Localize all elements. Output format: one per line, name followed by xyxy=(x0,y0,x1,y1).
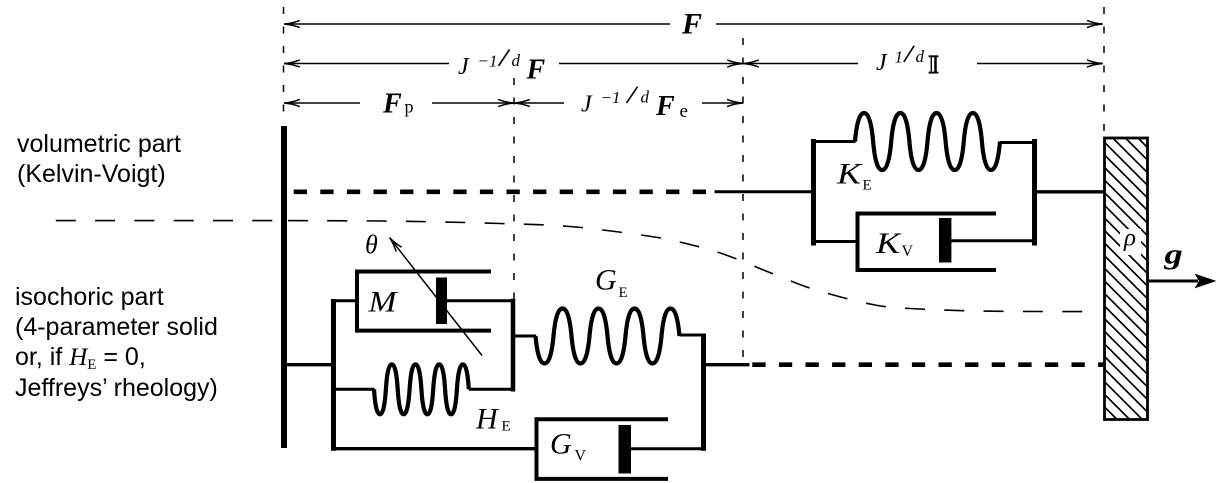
svg-text:F: F xyxy=(655,91,675,122)
svg-text:M: M xyxy=(367,285,398,318)
svg-text:G: G xyxy=(550,428,572,461)
wire: spring H_E lead-out xyxy=(469,388,513,391)
svg-text:−1: −1 xyxy=(601,88,621,107)
svg-text:V: V xyxy=(902,243,914,260)
arrowhead J^(-1/d)F right xyxy=(727,60,743,67)
arrowhead J^(-1/d)F left xyxy=(284,60,300,67)
dimension line J^(-1/d)F right segment xyxy=(559,63,742,65)
arrowhead J^(1/d)I right xyxy=(1087,60,1103,67)
svg-text:p: p xyxy=(405,97,414,117)
svg-text:d: d xyxy=(641,88,650,107)
node: Kelvin-Voigt left parallel bar xyxy=(811,139,816,246)
glyph blackboard-bold identity tensor I xyxy=(929,56,939,72)
svg-text:g: g xyxy=(1163,239,1182,270)
svg-text:E: E xyxy=(863,177,872,193)
dashpot G_V cup xyxy=(537,419,669,479)
dimension line J^(-1/d)F left segment xyxy=(285,63,449,65)
svg-text:−1: −1 xyxy=(478,51,498,70)
arrowhead F_p right (meets split) xyxy=(498,99,514,106)
dimension line J^(1/d)I left segment xyxy=(744,63,858,65)
ground: fixed frame bar xyxy=(281,126,287,448)
svg-text:J: J xyxy=(876,50,888,76)
dashpot K_V piston rod xyxy=(951,239,1035,242)
svg-text:F: F xyxy=(382,89,402,120)
svg-text:V: V xyxy=(575,447,587,464)
node: isochoric right parallel bar xyxy=(701,334,706,451)
svg-text:G: G xyxy=(595,263,617,296)
dimension line F row1 right segment xyxy=(716,23,1102,25)
node: dashed reference line at x=743 (isochoric / volumetric split) xyxy=(742,38,744,363)
wire: isochoric solid connector out xyxy=(703,363,750,366)
wire: dashpot M lead-in xyxy=(333,299,358,302)
dimension line J^(-1/d)F_e left segment xyxy=(515,102,564,104)
svg-text:d: d xyxy=(512,51,521,70)
wire: spring G_E lead-out xyxy=(680,334,705,337)
arrowhead J^(1/d)I left xyxy=(743,60,759,67)
wire: volumetric branch thick dashed segment xyxy=(294,190,706,195)
dashpot M piston rod xyxy=(446,299,513,302)
svg-text:θ: θ xyxy=(365,230,378,259)
svg-text:d: d xyxy=(916,47,925,66)
svg-text:F: F xyxy=(681,7,702,40)
node: dashed reference line at left boundary x=283.5 xyxy=(283,7,285,122)
wire: isochoric branch entry xyxy=(284,363,334,366)
wire: separator dashed sigmoid curve xyxy=(288,221,1093,312)
spring K_E xyxy=(855,113,1000,170)
dimension line F row1 left segment xyxy=(285,23,670,25)
wire: dashpot K_V lead-in xyxy=(813,240,858,243)
dashpot G_V piston plate xyxy=(619,425,632,474)
dimension line F_p right segment xyxy=(432,102,513,104)
spring G_E xyxy=(536,309,680,364)
dashpot K_V cup xyxy=(858,214,997,271)
arrowhead F left xyxy=(284,20,300,27)
node: isochoric left parallel bar xyxy=(331,299,336,451)
svg-text:J: J xyxy=(581,91,593,117)
dashpot M cup xyxy=(357,272,491,331)
wire: separator dashed line left of frame xyxy=(56,220,281,222)
arrow g gravity xyxy=(1148,280,1198,283)
wire: spring K_E lead-in xyxy=(813,140,856,143)
svg-text:E: E xyxy=(502,419,511,435)
wire: volumetric branch to wall xyxy=(1035,190,1104,193)
svg-text:1: 1 xyxy=(895,47,904,66)
wire: volumetric branch solid connector xyxy=(715,190,814,193)
node: dashed reference line at x=514 (F_p / F_e split) xyxy=(513,78,515,363)
wire: spring K_E lead-out xyxy=(1000,141,1035,144)
wire: series stub to G_E xyxy=(512,335,536,338)
dashpot K_V piston plate xyxy=(939,218,951,263)
spring H_E xyxy=(374,364,469,414)
text: volumetric part label xyxy=(17,129,181,189)
svg-text:K: K xyxy=(875,227,902,260)
dashpot G_V piston rod xyxy=(630,447,704,450)
text: isochoric part label xyxy=(15,282,218,403)
svg-text:J: J xyxy=(458,54,470,80)
svg-text:E: E xyxy=(619,285,628,301)
svg-text:e: e xyxy=(680,101,688,122)
wire: dashpot G_V bottom branch xyxy=(333,447,538,450)
node: inner right parallel bar xyxy=(511,299,516,392)
node: Kelvin-Voigt right parallel bar xyxy=(1032,139,1037,246)
svg-text:ρ: ρ xyxy=(1123,225,1136,252)
svg-text:F: F xyxy=(526,54,546,85)
dimension line F_p left segment xyxy=(285,102,360,104)
svg-text:H: H xyxy=(475,403,500,436)
arrow theta through dashpot M xyxy=(391,240,482,356)
wire: isochoric thick dashed segment to wall xyxy=(752,362,1104,367)
wire: spring H_E lead-in xyxy=(333,388,375,391)
dashpot M piston plate xyxy=(436,278,447,325)
dimension line J^(1/d)I right segment xyxy=(977,63,1102,65)
arrowhead J^(-1/d)F_e right xyxy=(727,99,743,106)
label rho density (with white backing) xyxy=(1120,229,1141,255)
svg-text:K: K xyxy=(836,157,863,190)
arrowhead F right xyxy=(1087,20,1103,27)
dimension line J^(-1/d)F_e right segment xyxy=(702,102,742,104)
arrowhead J^(-1/d)F_e left (meets split) xyxy=(514,99,530,106)
node: dashed reference line at wall x=1104 xyxy=(1103,7,1105,133)
arrowhead F_p left xyxy=(284,99,300,106)
